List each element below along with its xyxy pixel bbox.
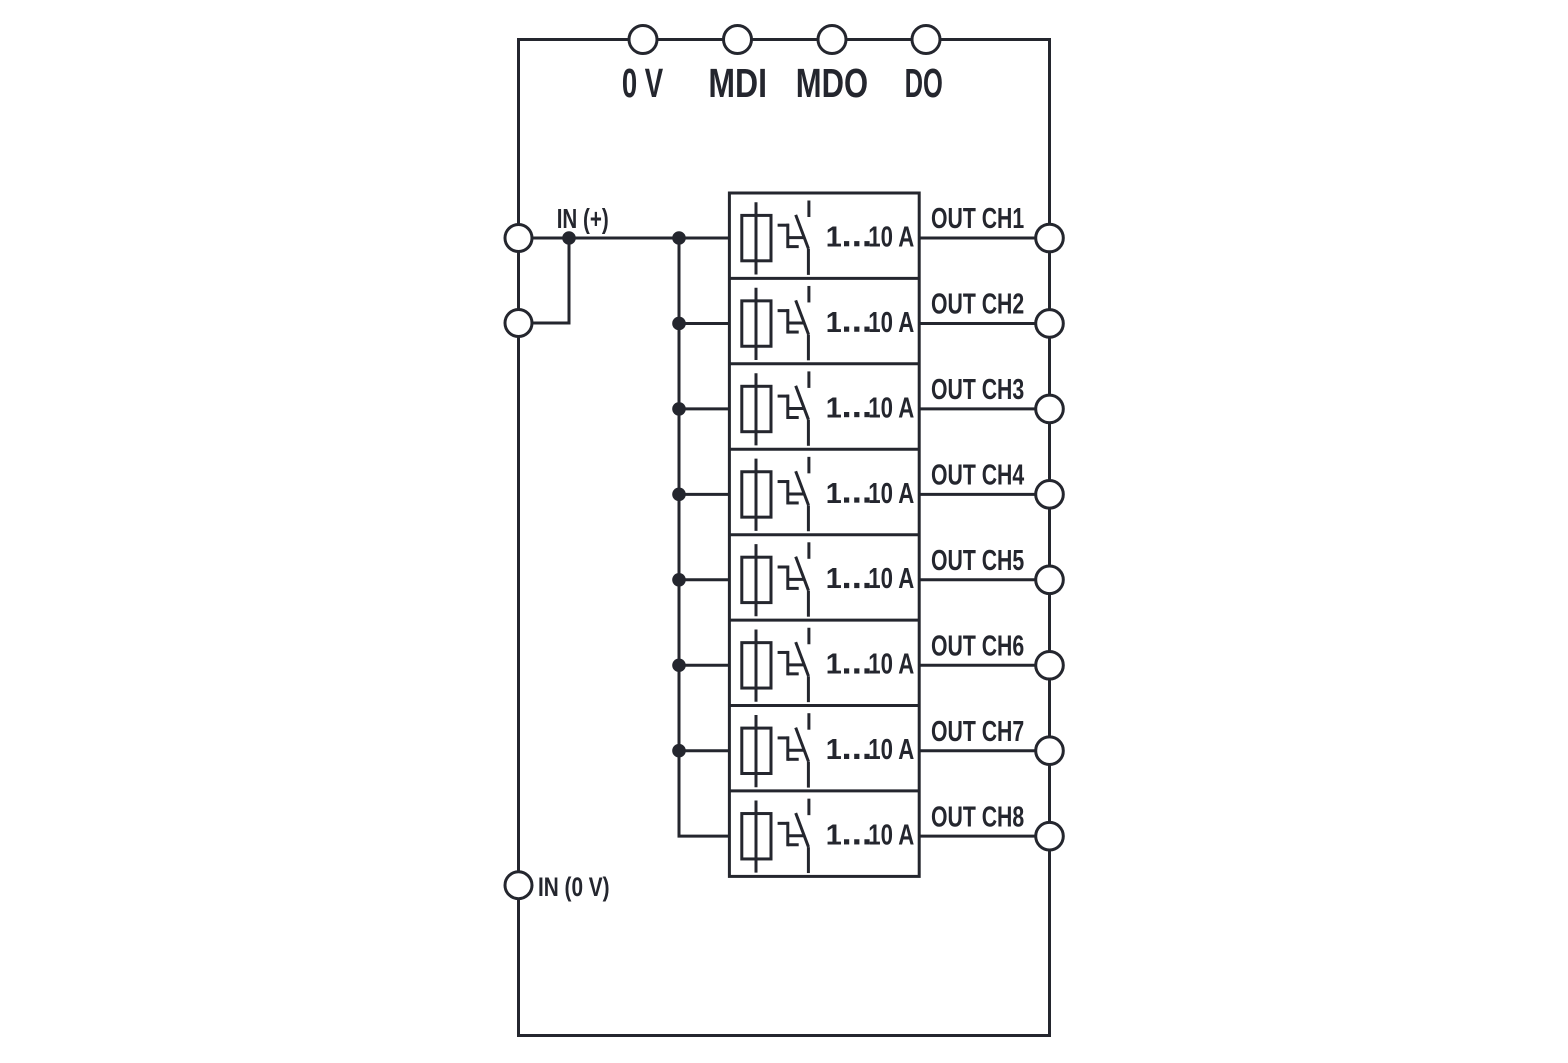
svg-text:IN (+): IN (+)	[557, 204, 609, 235]
svg-text:OUT CH2: OUT CH2	[931, 289, 1024, 321]
svg-text:DO: DO	[905, 61, 943, 106]
svg-text:OUT CH3: OUT CH3	[931, 374, 1024, 406]
svg-text:OUT CH4: OUT CH4	[931, 460, 1024, 492]
svg-text:0 V: 0 V	[622, 62, 663, 106]
svg-text:IN (0 V): IN (0 V)	[538, 873, 610, 903]
svg-text:OUT CH5: OUT CH5	[931, 545, 1024, 577]
svg-text:OUT CH8: OUT CH8	[931, 801, 1024, 833]
svg-text:OUT CH7: OUT CH7	[931, 716, 1024, 748]
svg-text:OUT CH1: OUT CH1	[931, 203, 1024, 235]
svg-text:OUT CH6: OUT CH6	[931, 630, 1024, 662]
svg-text:MDI: MDI	[708, 60, 767, 105]
svg-text:MDO: MDO	[796, 60, 868, 106]
